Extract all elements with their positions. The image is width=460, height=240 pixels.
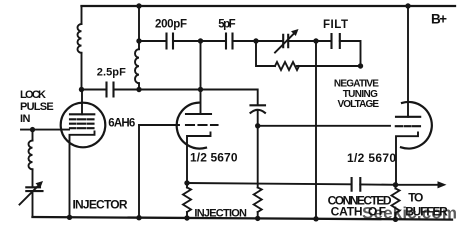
svg-text:5pF: 5pF: [218, 19, 235, 31]
svg-text:6AH6: 6AH6: [108, 118, 135, 130]
svg-text:IN: IN: [20, 113, 31, 125]
svg-text:CATH: CATH: [331, 204, 363, 218]
svg-text:VOLTAGE: VOLTAGE: [338, 99, 380, 110]
svg-text:FILT: FILT: [323, 19, 349, 31]
svg-text:INJECTOR: INJECTOR: [73, 198, 128, 212]
svg-text:1/2 5670: 1/2 5670: [190, 150, 238, 164]
svg-text:Seekic.com: Seekic.com: [362, 204, 457, 223]
svg-text:LOCK: LOCK: [20, 89, 46, 101]
svg-text:INJECTION: INJECTION: [194, 207, 247, 219]
svg-text:200pF: 200pF: [155, 19, 187, 31]
svg-text:NEGATIVE: NEGATIVE: [334, 79, 379, 90]
svg-text:PULSE: PULSE: [20, 101, 54, 113]
svg-text:1/2 5670: 1/2 5670: [347, 151, 396, 165]
svg-text:B+: B+: [431, 12, 447, 27]
svg-text:2.5pF: 2.5pF: [97, 67, 126, 79]
